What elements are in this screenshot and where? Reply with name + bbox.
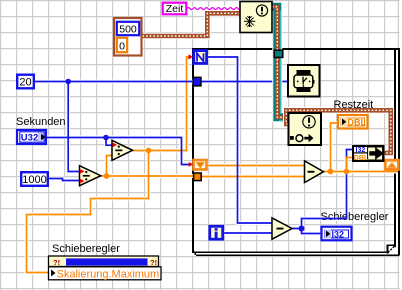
wire: brown cluster rope loop (bundle to wait icon) (286, 110, 391, 153)
node: subtract (upper, inside loop) (305, 161, 324, 183)
coercion dots divide1 (113, 143, 118, 148)
shift register right terminal (385, 160, 398, 169)
svg-text:0: 0 (119, 41, 125, 53)
node: subtract (lower, N-i) (272, 218, 292, 239)
wire: orange subtract output to SR-right with branches (323, 171, 398, 173)
node: divide 1 (upper) (112, 140, 133, 160)
svg-text:Schieberegler: Schieberegler (52, 243, 120, 255)
wire: blue N to lower subtract (208, 57, 273, 223)
wire: blue 20 to watch icon (35, 81, 288, 83)
wire: blue lower subtract output to I32 indicator and bundle (292, 229, 322, 234)
svg-text:Sekunden: Sekunden (16, 116, 66, 128)
svg-text:I32: I32 (356, 147, 366, 154)
for loop border (192, 48, 400, 256)
constant: 1000 (21, 172, 48, 186)
wire white casings (27, 57, 399, 273)
tunnel: blue tunnel on left border (20) (193, 77, 201, 86)
node: orange junction dot at divide2 output (104, 173, 110, 179)
node: bundle I32/DBL (353, 146, 384, 162)
svg-text:500: 500 (119, 24, 137, 36)
loop corner notch (page curl diagonal) (388, 246, 395, 253)
svg-text:Skalierung.Maximum: Skalierung.Maximum (57, 268, 160, 280)
svg-text:Schieberegler: Schieberegler (321, 211, 389, 223)
svg-text:?!: ?! (150, 258, 157, 267)
terminal: i (iteration) (210, 226, 223, 239)
tunnel: orange tunnel on left border (scale value) (194, 173, 202, 181)
tunnel: teal occurrence tunnel on loop top border (274, 50, 283, 57)
svg-text:DBL: DBL (348, 117, 367, 127)
indicator: I32 Schieberegler (322, 227, 352, 241)
constant: 20 (17, 75, 34, 89)
wire: orange divide2 output to upper divide + tunnel (101, 175, 195, 177)
control terminal: U32 (Sekunden) (17, 130, 46, 144)
svg-text:U32: U32 (21, 133, 38, 144)
coercion dots divide2 (80, 169, 85, 174)
coercion dot (red arrow) into N (188, 54, 193, 59)
wire: occurrence teal wire from icon through tunnel to wait icon (272, 7, 289, 121)
terminal: slider icon (Schieberegler) (49, 256, 159, 267)
indicator: Restzeit DBL (338, 115, 368, 129)
cluster constant 500/0 (114, 18, 142, 56)
icon: generate occurrence (240, 2, 272, 33)
svg-text:DBL: DBL (354, 155, 369, 162)
wire: blue i to lower subtract (224, 232, 272, 234)
wire: magenta string wire Zeit to icon (187, 8, 243, 10)
label: Zeit (163, 3, 187, 15)
wire: brown cluster rope from 500/0 cluster to icon (143, 13, 241, 36)
icon: wait ms (watch) (288, 65, 320, 97)
wire: blue 1000 to divide2 bottom input (49, 179, 80, 181)
svg-text:20: 20 (19, 77, 31, 89)
svg-text:I32: I32 (332, 229, 345, 239)
svg-text:?!: ?! (53, 258, 60, 267)
coercion dot into SR left (189, 162, 194, 167)
svg-text:Zeit: Zeit (166, 3, 184, 15)
icon: wait on occurrence (289, 113, 322, 145)
wire: orange SR-left to subtract top input (208, 165, 305, 167)
node: divide 2 (lower) (80, 166, 101, 186)
wire: orange inside loop tunnel to subtract lower input (201, 176, 305, 178)
wire: orange upper divide output to N and property node (132, 57, 190, 151)
wire: blue U32 to shift register left / divide1 (47, 138, 191, 165)
shift register left terminal (194, 160, 207, 170)
terminal: N (loop count) (194, 51, 207, 64)
svg-text:Restzeit: Restzeit (334, 99, 374, 111)
wire: blue branch down to divide2 top input (68, 82, 79, 172)
svg-text:1000: 1000 (22, 174, 46, 186)
property node: Skalierung.Maximum (49, 267, 162, 281)
